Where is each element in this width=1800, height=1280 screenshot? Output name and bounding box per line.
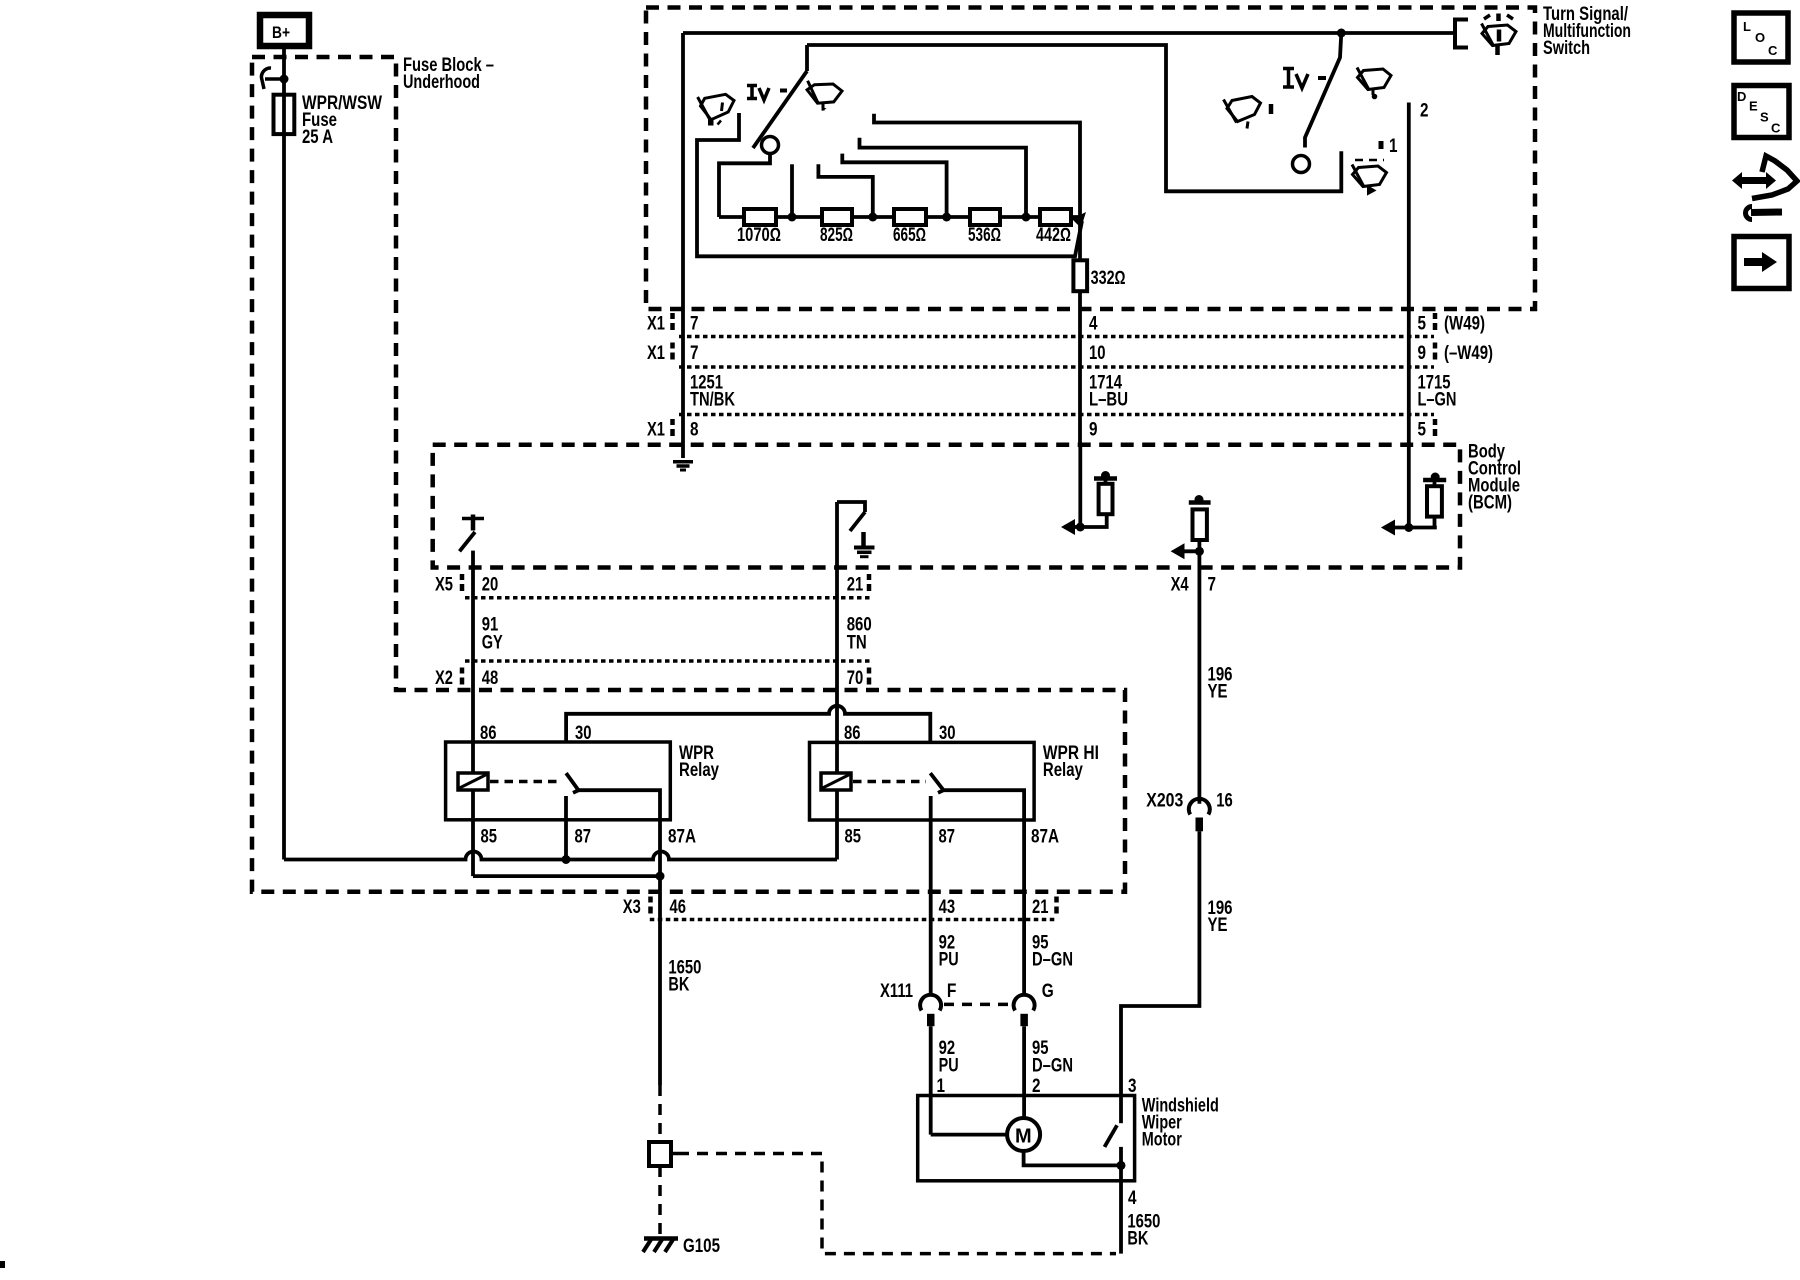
connector dotted line X5	[465, 596, 870, 600]
wire switch left vertical to X1-7	[681, 33, 685, 458]
svg-text:21: 21	[1032, 897, 1049, 918]
svg-text:70: 70	[847, 668, 864, 689]
svg-text:X3: X3	[623, 897, 641, 918]
svg-text:43: 43	[939, 897, 956, 918]
svg-text:Switch: Switch	[1543, 38, 1590, 59]
connector row X1 pins 7/4/5	[647, 313, 1485, 335]
svg-text:X4: X4	[1171, 574, 1189, 595]
svg-text:L–GN: L–GN	[1418, 390, 1457, 411]
fuse tap connector hook	[261, 68, 288, 89]
svg-text:4: 4	[1089, 314, 1098, 335]
svg-text:X5: X5	[435, 575, 453, 596]
svg-text:2: 2	[1420, 101, 1429, 122]
connector bracket to turn signal lever	[1455, 20, 1468, 48]
fuse WPR/WSW 25A	[274, 95, 295, 134]
svg-text:4: 4	[1128, 1188, 1137, 1209]
resistor R4 536	[968, 209, 1001, 246]
BCM pull-up resistor (col 1714)	[1061, 445, 1117, 535]
svg-text:G105: G105	[683, 1236, 720, 1257]
svg-text:Underhood: Underhood	[403, 72, 480, 93]
resistor R6 332	[1073, 217, 1125, 291]
B+ battery feed box	[260, 15, 309, 46]
svg-text:B+: B+	[272, 23, 290, 42]
dashed wire splice to ground	[658, 1166, 662, 1234]
WPR HI coil-armature link	[853, 780, 926, 784]
label Body Control Module (BCM)	[1468, 442, 1521, 514]
svg-text:L: L	[1743, 19, 1751, 34]
svg-text:E: E	[1749, 99, 1758, 114]
resistor R1 1070	[737, 209, 781, 246]
WPR HI 87 wire down	[929, 796, 933, 892]
wire washer output 2	[1409, 101, 1429, 446]
connector row X5 pins 20/21	[435, 574, 869, 596]
svg-text:10: 10	[1089, 343, 1106, 364]
WPR HI coil	[821, 773, 851, 790]
motor armature M	[931, 1118, 1040, 1151]
svg-text:665Ω: 665Ω	[893, 225, 926, 246]
pin labels WPR HI bottom	[845, 827, 1060, 848]
BCM switch (wiper speed input)	[460, 515, 485, 569]
WPR relay coil-armature link	[490, 780, 562, 784]
svg-text:M: M	[1015, 1126, 1032, 1148]
turn signal / multifunction switch dashed box	[646, 8, 1535, 310]
wire 91 GY column down to WPR relay coil	[471, 568, 475, 773]
svg-text:PU: PU	[939, 1055, 959, 1076]
page margin tick	[0, 1261, 5, 1268]
resistor bus	[719, 215, 1080, 219]
svg-text:86: 86	[844, 723, 861, 744]
svg-text:D–GN: D–GN	[1032, 950, 1073, 971]
wire label 91 GY	[482, 615, 503, 654]
wiper delay switch label Iv- (left)	[747, 86, 787, 101]
svg-text:Motor: Motor	[1142, 1130, 1182, 1151]
wire label 95 D-GN (lower)	[1032, 1038, 1073, 1076]
wiper-with-washer icon top right	[1482, 14, 1517, 56]
svg-text:S: S	[1760, 110, 1769, 125]
svg-text:X1: X1	[647, 420, 665, 441]
svg-text:X2: X2	[435, 668, 453, 689]
svg-text:9: 9	[1089, 420, 1098, 441]
svg-text:YE: YE	[1208, 915, 1228, 936]
wire label 1650 BK	[668, 957, 701, 995]
wire fuse down to relay feed bus	[282, 134, 286, 860]
wire label 1715 L-GN	[1418, 373, 1457, 411]
wiper icon left-switch right (low)	[807, 81, 842, 111]
svg-text:9: 9	[1418, 343, 1427, 364]
wire 196 YE lower	[1121, 831, 1199, 1095]
WPR relay coil out to 85	[471, 790, 475, 876]
double-arrow squiggle icon	[1732, 156, 1797, 220]
body control module dashed box	[433, 445, 1460, 568]
tap contact T3	[842, 154, 946, 217]
svg-text:(–W49): (–W49)	[1444, 343, 1493, 364]
WPR relay 87 wire	[564, 796, 568, 860]
svg-text:5: 5	[1418, 314, 1427, 335]
svg-text:20: 20	[482, 575, 499, 596]
connector row X1 pins 7/10/9	[647, 343, 1493, 365]
wiper speed switch arm (left, with delay taps)	[753, 45, 807, 154]
splice box S	[649, 1142, 678, 1166]
svg-text:(BCM): (BCM)	[1468, 493, 1512, 514]
inline connector X203 pin 16	[1146, 791, 1233, 832]
wiper icon left (mist)	[698, 94, 734, 125]
svg-text:TN/BK: TN/BK	[690, 390, 735, 411]
svg-text:1: 1	[1389, 136, 1398, 157]
resistor R3 665	[893, 209, 926, 246]
wire 85 + 87A join to ground lead	[473, 874, 660, 878]
connector dotted line 1	[679, 335, 1434, 339]
svg-text:46: 46	[670, 897, 687, 918]
wire label 860 TN	[847, 615, 872, 654]
WPR relay box	[446, 742, 720, 820]
wire switch common to resistor ladder	[719, 154, 770, 218]
label X4 7	[1171, 574, 1216, 595]
connector row X2 pins 48/70	[435, 668, 869, 690]
windshield wiper motor box	[918, 1096, 1219, 1181]
fuse block - underhood dashed box	[252, 57, 1125, 892]
wire 860 TN column down to WPR HI coil	[835, 568, 839, 773]
DESC icon box	[1734, 86, 1789, 138]
wire 95 D-GN into motor pin 2	[1022, 1026, 1026, 1118]
tap contact T4	[860, 138, 1027, 217]
svg-text:D: D	[1737, 89, 1746, 104]
svg-text:1070Ω: 1070Ω	[737, 225, 781, 246]
WPR HI NC contact to 87A	[944, 790, 1025, 892]
svg-text:D–GN: D–GN	[1032, 1055, 1073, 1076]
wire label 92 PU (lower)	[939, 1038, 959, 1076]
WPR HI coil out to 85 / bus	[835, 790, 839, 860]
dashed branch splice to motor ground wire	[678, 1154, 1116, 1254]
svg-text:BK: BK	[668, 974, 689, 995]
tap contact T1	[790, 164, 794, 217]
wire label 95 D-GN	[1032, 932, 1073, 970]
wire label 1251 TN/BK	[690, 373, 735, 411]
LOC icon box	[1734, 13, 1788, 62]
svg-text:PU: PU	[939, 950, 959, 971]
inline connector X111 G	[1014, 981, 1054, 1026]
svg-text:Relay: Relay	[1043, 760, 1083, 781]
svg-text:(W49): (W49)	[1444, 314, 1485, 335]
label 1 with tick	[1381, 136, 1398, 157]
svg-text:87: 87	[575, 827, 592, 848]
resistor R2 825	[820, 209, 853, 246]
svg-text:85: 85	[481, 827, 498, 848]
svg-text:25 A: 25 A	[302, 127, 333, 148]
svg-text:86: 86	[480, 723, 497, 744]
wire label 1714 L-BU	[1089, 373, 1128, 411]
svg-text:BK: BK	[1127, 1228, 1148, 1249]
label Turn Signal/Multifunction Switch	[1543, 4, 1631, 59]
wire label 196 YE (lower)	[1208, 898, 1233, 936]
wire label 1650 BK (motor)	[1127, 1211, 1160, 1249]
connector dotted line 3	[679, 413, 1434, 417]
WPR HI armature	[930, 773, 943, 793]
svg-text:30: 30	[575, 723, 592, 744]
washer switch arm (right)	[1293, 29, 1346, 173]
ground BCM internal (left)	[673, 462, 693, 470]
wire B+ to fuse	[282, 46, 286, 95]
svg-text:442Ω: 442Ω	[1036, 225, 1071, 246]
wire 92 PU into motor pin 1	[929, 1026, 933, 1134]
svg-text:87: 87	[939, 827, 956, 848]
wire 1650 BK dashed to splice	[658, 1085, 662, 1142]
BCM pull-up resistor (col 1715)	[1381, 445, 1446, 536]
next-page arrow icon box	[1734, 237, 1789, 289]
dashed connector face line X111	[944, 1003, 1011, 1007]
pin labels WPR HI top	[844, 723, 956, 744]
arrowhead resistor wiper	[1072, 212, 1086, 228]
svg-text:YE: YE	[1208, 681, 1228, 702]
WPR HI relay box	[810, 742, 1099, 820]
wire 1650 down to X3-46	[658, 876, 662, 892]
ground G105	[643, 1236, 720, 1257]
svg-text:X203: X203	[1146, 791, 1183, 812]
svg-text:TN: TN	[847, 633, 867, 654]
washer switch label Iv- (right)	[1283, 69, 1326, 89]
svg-text:O: O	[1755, 30, 1765, 45]
wiper icon right-switch top	[1357, 68, 1391, 100]
junction dots on bus	[788, 213, 1031, 222]
motor return to pin 4	[1024, 1151, 1126, 1254]
svg-text:8: 8	[690, 420, 699, 441]
connector row X3 pins 46/43/21	[623, 897, 1057, 919]
wire 95 D-GN to X111-G	[1022, 892, 1026, 994]
pin labels WPR relay bottom	[481, 827, 697, 848]
resistor R5 442	[1036, 209, 1071, 246]
svg-text:85: 85	[845, 827, 862, 848]
wire label 92 PU	[939, 932, 959, 970]
svg-text:X111: X111	[880, 981, 913, 1002]
svg-text:536Ω: 536Ω	[968, 225, 1001, 246]
svg-text:X1: X1	[647, 314, 665, 335]
svg-text:48: 48	[482, 668, 499, 689]
wiper icon right-switch left (with I mark)	[1224, 97, 1272, 129]
wire 1650 BK solid portion	[658, 892, 662, 1085]
svg-text:16: 16	[1216, 791, 1233, 812]
BCM park switch with ground	[837, 502, 875, 568]
wire 332 down to X1-4	[1078, 291, 1082, 445]
svg-text:21: 21	[847, 575, 864, 596]
inline connector X111 F	[880, 981, 956, 1026]
label WPR/WSW Fuse 25 A	[302, 93, 382, 148]
svg-text:87A: 87A	[668, 827, 696, 848]
connector dotted line X3	[650, 918, 1056, 922]
wire switch feed top horizontal	[683, 31, 1455, 35]
B+ bus under relays with hops	[284, 852, 837, 860]
connector dotted line X2	[465, 659, 870, 663]
svg-text:332Ω: 332Ω	[1091, 268, 1126, 289]
svg-text:7: 7	[1208, 574, 1217, 595]
WPR relay coil	[458, 773, 488, 790]
wire 92 PU to X111-F	[929, 892, 933, 994]
svg-text:C: C	[1771, 121, 1781, 136]
svg-text:825Ω: 825Ω	[820, 225, 853, 246]
svg-text:Relay: Relay	[679, 760, 719, 781]
BCM wiper park output driver (X4-7)	[1171, 495, 1211, 568]
svg-text:X1: X1	[647, 343, 665, 364]
svg-text:30: 30	[939, 723, 956, 744]
svg-text:G: G	[1042, 981, 1054, 1002]
svg-text:7: 7	[690, 314, 699, 335]
svg-text:GY: GY	[482, 633, 503, 654]
wire 196 YE upper	[1198, 568, 1202, 804]
connector dotted line 2	[679, 365, 1434, 369]
motor park switch	[1105, 1096, 1122, 1166]
wiper icon right-switch bottom (park)	[1352, 160, 1387, 194]
junction dot bus to 87	[562, 855, 571, 864]
connector row X1 pins 8/9/5	[647, 419, 1435, 441]
wire left icon stub	[697, 113, 1082, 256]
svg-text:7: 7	[690, 343, 699, 364]
wire relay 30 interconnect with hop	[566, 706, 930, 743]
tap contact T2	[818, 164, 872, 217]
WPR relay NC contact to 87A	[579, 790, 661, 876]
svg-text:L–BU: L–BU	[1089, 390, 1128, 411]
svg-text:5: 5	[1418, 420, 1427, 441]
svg-text:C: C	[1768, 43, 1778, 58]
motor pin labels 1 2 3	[937, 1076, 1137, 1097]
WPR relay armature	[566, 773, 578, 793]
label Fuse Block - Underhood	[403, 55, 494, 93]
pin labels WPR relay top	[480, 723, 592, 744]
wire label 196 YE (upper)	[1208, 664, 1233, 702]
svg-text:87A: 87A	[1031, 827, 1059, 848]
tap contact T5	[874, 114, 1080, 217]
wire switch arm output to low-speed line	[807, 45, 1341, 191]
svg-text:F: F	[947, 981, 957, 1002]
